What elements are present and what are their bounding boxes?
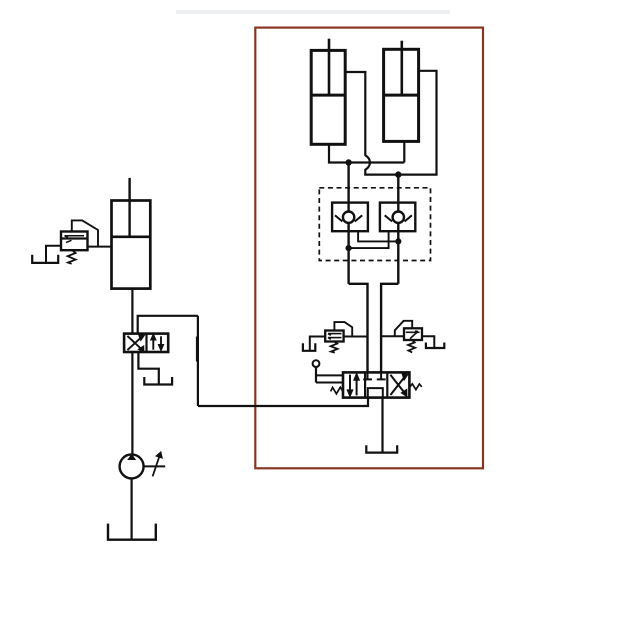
wire right jog to valve DCV2 port B — [381, 284, 398, 373]
check valve V1 ball — [343, 212, 354, 223]
pump P1 flow triangle — [127, 454, 136, 460]
dashed enclosure (dual pilot check block) — [319, 188, 430, 261]
wire node B to C2 rod port — [398, 71, 436, 175]
DCV2 left spring — [331, 387, 344, 394]
pump P1 circle — [120, 454, 144, 478]
wire DCV2 tank port — [381, 398, 383, 453]
check valve V1 seat — [335, 215, 362, 221]
cylinder C3 rod — [128, 178, 130, 237]
check valve V2 ball — [393, 212, 404, 223]
node A junction dot — [345, 159, 351, 165]
wire feed riser thick overlap — [196, 337, 199, 362]
cylinder C2 body — [384, 49, 419, 141]
DCV2 right position crossed arrows — [390, 374, 407, 395]
cylinder C1 body — [311, 50, 345, 144]
tank T3 — [426, 343, 444, 349]
relief valve R3 drain wire — [422, 336, 434, 348]
tank T4 — [366, 445, 397, 452]
wire C3 cap port to DCV1 — [131, 289, 133, 334]
relief valve R1 drain wire — [46, 246, 61, 263]
pump P1 outlet wire — [144, 465, 166, 467]
tank T1 — [32, 255, 58, 263]
relief valve R2 drain wire — [310, 337, 325, 351]
tank T2 — [303, 343, 315, 351]
relief valve R2 tap wire — [344, 336, 368, 338]
relief valve R2 pilot line — [334, 322, 352, 336]
cylinder C2 piston — [384, 94, 419, 97]
relief valve R1 spring — [68, 250, 76, 263]
wire pump suction — [131, 478, 133, 539]
relief valve R3 flow arrow — [406, 331, 420, 338]
cylinder C1 piston — [311, 94, 345, 97]
DCV2 centre position blocked ports — [363, 372, 385, 397]
pump P1 variable arrow — [153, 453, 162, 477]
relief valve R2 spring — [331, 342, 338, 353]
relief valve R1 divider — [61, 237, 88, 239]
relief valve R3 tap wire — [381, 335, 404, 337]
cylinder C2 rod — [400, 41, 403, 95]
relief valve R1 flow arrows — [65, 236, 85, 243]
relief valve R2 flow arrows — [328, 334, 342, 340]
tank T5 — [144, 377, 172, 385]
wire DCV2 pressure port to left circuit — [198, 398, 368, 406]
wire DCV1 to pump — [131, 352, 133, 455]
wire DCV1 aux port to right circuit feed — [138, 316, 198, 334]
node C junction dot — [346, 245, 352, 251]
check valve V1 box — [332, 203, 368, 232]
wire V2 down leg — [397, 222, 399, 284]
scan smudge top — [176, 10, 450, 14]
relief valve R1 body — [61, 232, 88, 251]
cylinder C1 rod — [328, 39, 331, 95]
DCV1 position divider — [145, 334, 147, 352]
DCV1 left position crossed arrows — [127, 335, 143, 351]
wire V1 down leg — [347, 222, 349, 284]
wire C1 cap port to node A — [329, 144, 349, 162]
node B junction dot — [395, 171, 401, 177]
DCV2 left position arrows — [348, 375, 359, 396]
pilot line V1 to node D — [358, 231, 398, 241]
check valve V2 box — [380, 203, 415, 232]
DCV2 lever knob — [313, 360, 320, 367]
relief valve R1 pilot line — [72, 220, 98, 246]
DCV2 lever shaft — [315, 367, 317, 383]
cylinder C3 body — [112, 201, 151, 289]
wire DCV1 tank port — [138, 352, 158, 384]
DCV2 right spring — [410, 384, 422, 390]
DCV2 position dividers — [365, 372, 387, 397]
node D junction dot — [395, 238, 401, 244]
relief valve R2 body — [325, 331, 343, 342]
DCV2 lever links — [316, 375, 343, 382]
check valve V2 seat — [385, 215, 412, 221]
boundary box (red frame) — [255, 28, 483, 469]
DCV1 right position arrows — [151, 335, 163, 350]
relief valve R3 body — [404, 328, 422, 340]
wire C1 rod port with crossover hop — [345, 72, 398, 175]
directional valve DCV2 body — [343, 372, 409, 397]
relief valve R3 spring — [408, 340, 415, 352]
wire node A down to check valve V1 — [347, 163, 349, 212]
wire C3 side port to relief R1 — [88, 246, 112, 248]
wire feed riser down — [197, 316, 199, 406]
directional valve DCV1 body — [124, 334, 168, 352]
wire left jog to valve DCV2 port A — [349, 284, 368, 373]
tank T6 — [108, 524, 156, 540]
relief valve R3 pilot line — [395, 321, 412, 336]
wire node B down to check valve V2 — [397, 175, 399, 212]
wire node A to C2 cap port — [349, 161, 405, 163]
wire C2 cap port drop — [403, 141, 405, 162]
cylinder C3 piston — [112, 235, 151, 238]
pilot line V2 to node C — [349, 231, 389, 248]
